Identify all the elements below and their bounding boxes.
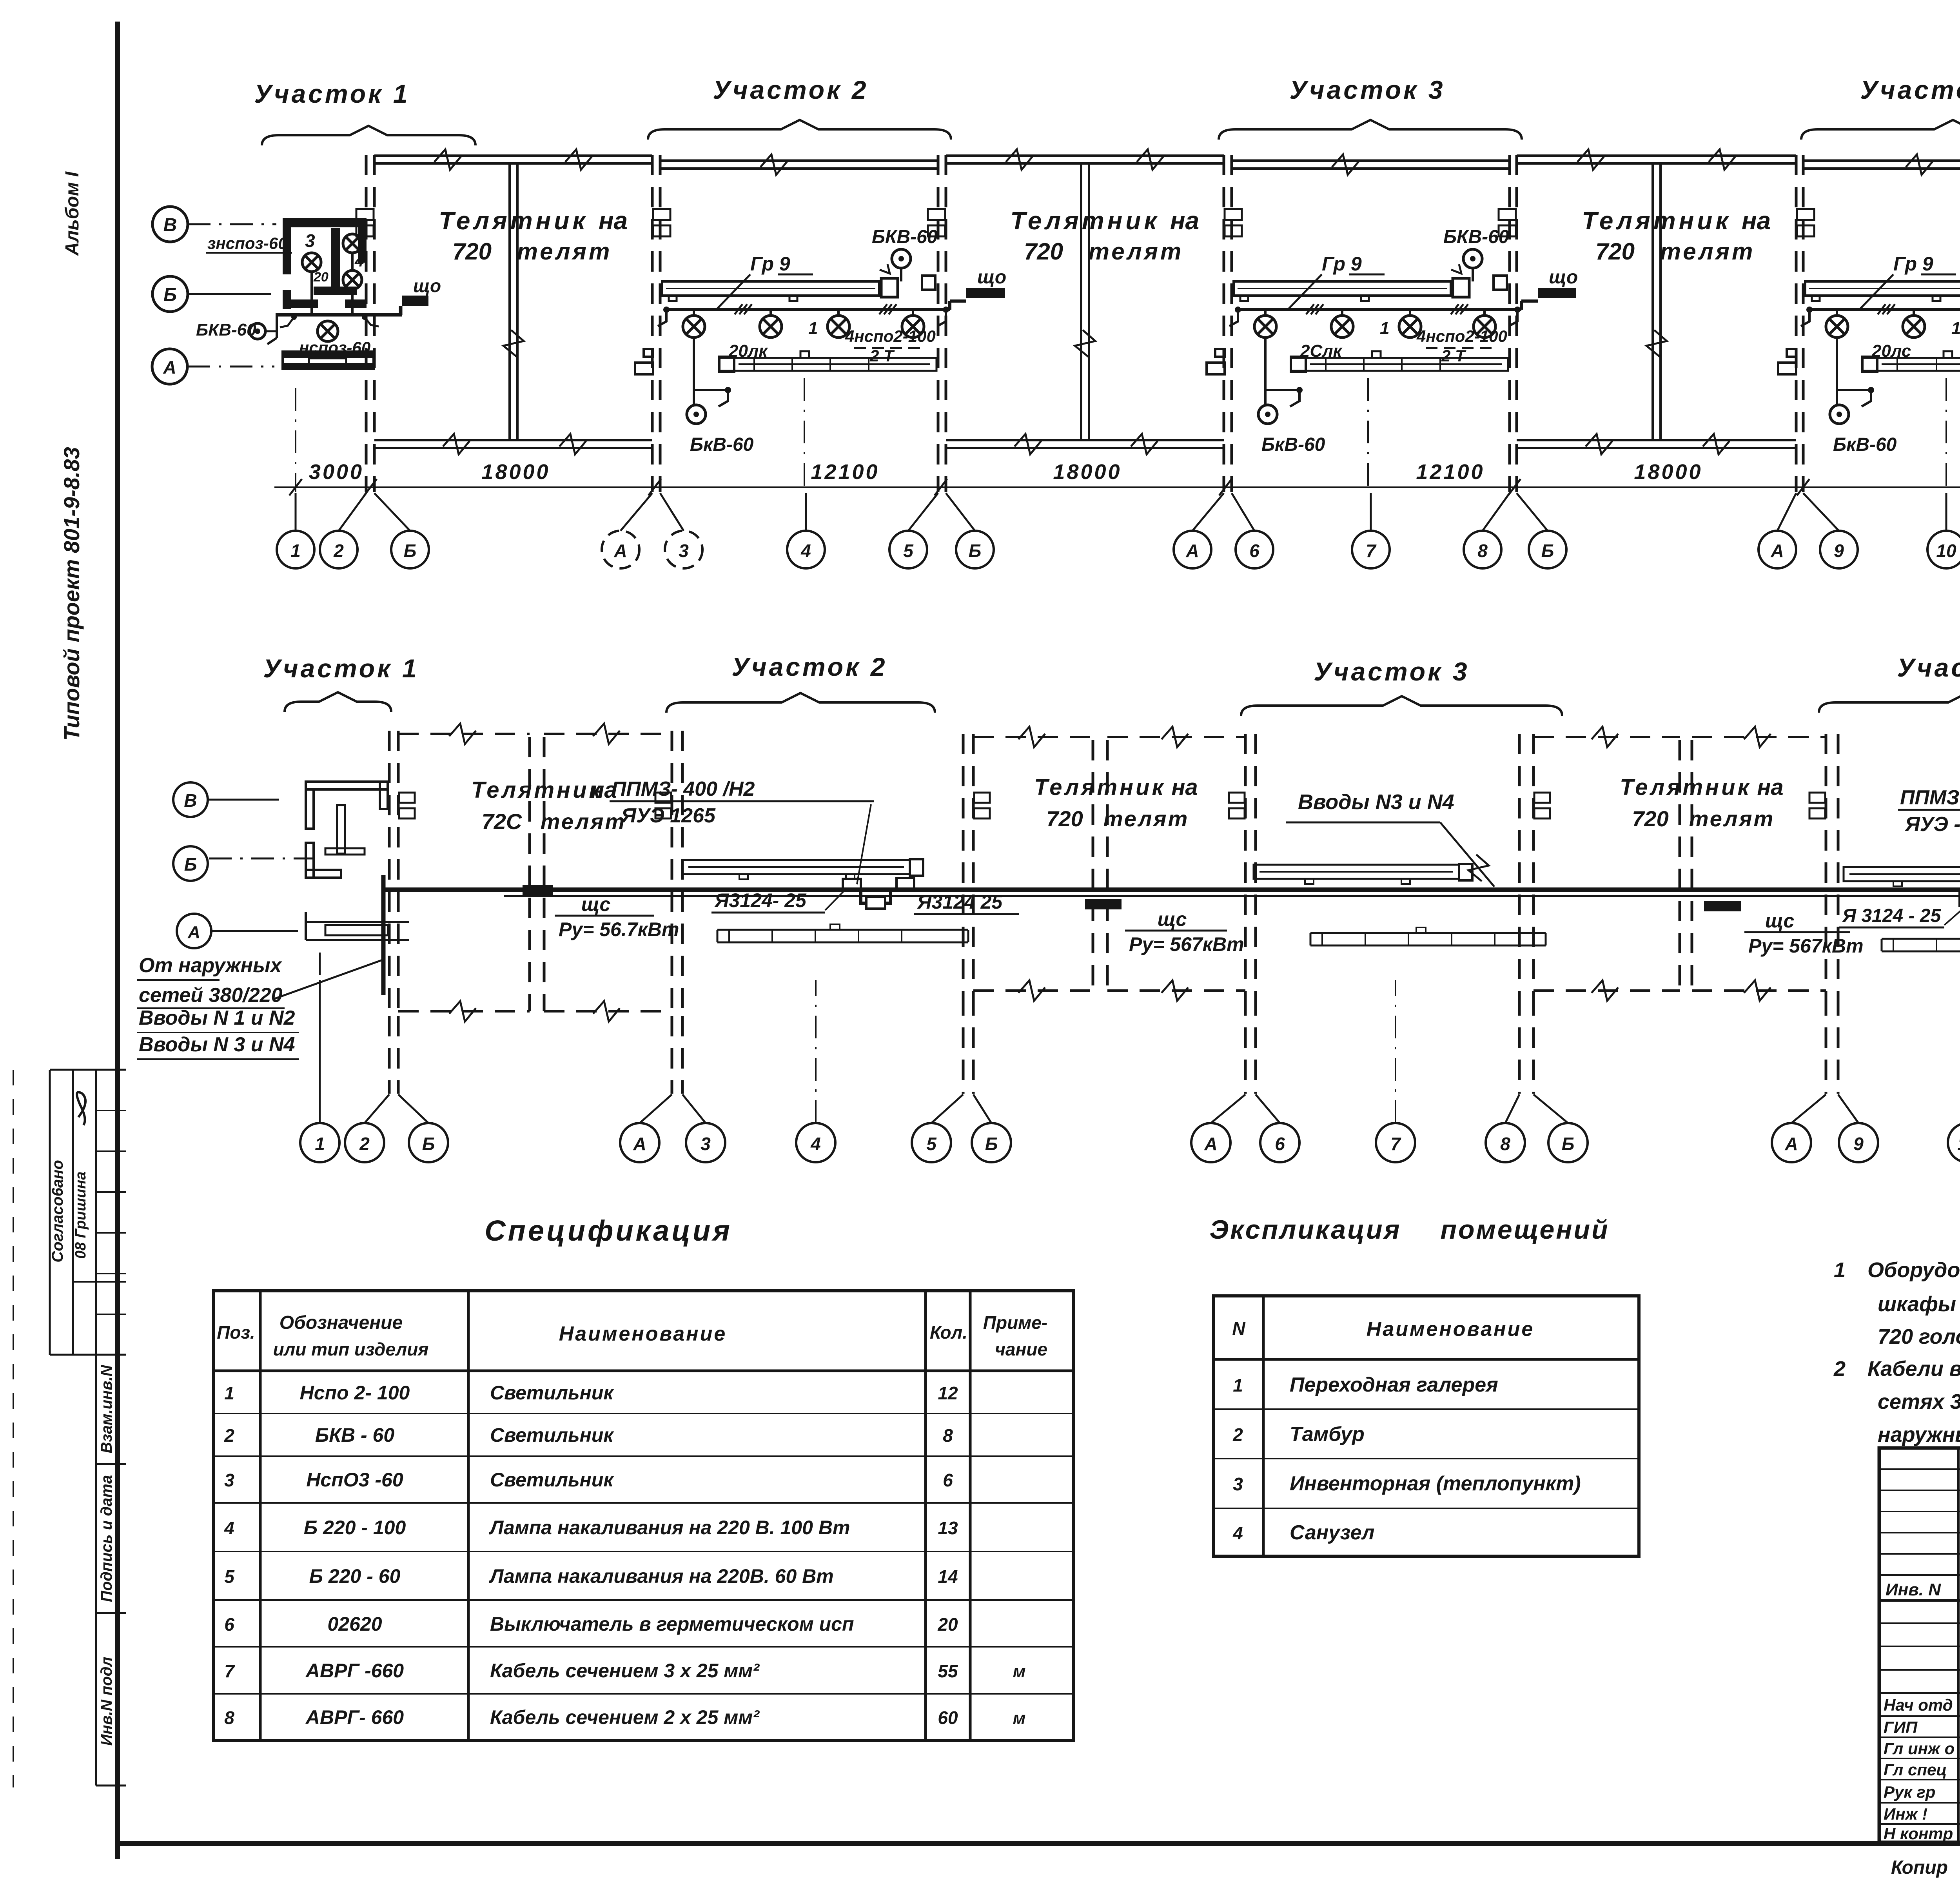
axis 1 dash-dot (row2) (319, 953, 321, 1123)
svg-text:Вводы N 1 и N2: Вводы N 1 и N2 (139, 1007, 295, 1029)
svg-text:на: на (1742, 207, 1771, 235)
svg-text:Ру= 567кВт: Ру= 567кВт (1129, 933, 1244, 955)
svg-text:Участок 1: Участок 1 (263, 654, 419, 683)
svg-text:1: 1 (1951, 319, 1960, 338)
row letter circle Б (152, 276, 188, 312)
spec table column lines (259, 1291, 262, 1740)
svg-text:Вводы N 3 и N4: Вводы N 3 и N4 (139, 1033, 295, 1056)
svg-text:Кол.: Кол. (930, 1322, 967, 1343)
building outline: Телятник Б3 (top row) bottom wall (1517, 439, 1796, 441)
svg-text:Выключатель в герметическом: Выключатель в герметическом исп (490, 1613, 854, 1635)
building Б3 bottom dashed wall (1534, 989, 1680, 992)
svg-text:Инв.N подл: Инв.N подл (98, 1657, 115, 1746)
service entrance vertical (heavy) (381, 875, 386, 995)
svg-text:Участок 1: Участок 1 (254, 79, 410, 108)
wall pilaster tabs (1499, 209, 1516, 220)
svg-text:Я3124 25: Я3124 25 (916, 891, 1003, 913)
svg-text:А: А (633, 1134, 646, 1154)
svg-text:телят: телят (517, 238, 612, 265)
svg-text:Инв. N: Инв. N (1886, 1580, 1941, 1599)
lamp БКВ-60 (bottom) (1830, 405, 1849, 424)
svg-text:Копир: Копир (1891, 1857, 1948, 1878)
svg-text:м: м (1013, 1662, 1026, 1681)
svg-text:N: N (1232, 1318, 1245, 1339)
svg-text:Альбом I: Альбом I (62, 171, 83, 256)
svg-text:сетях 380/220 в и уточня: сетях 380/220 в и уточняются при разрабо… (1878, 1390, 1960, 1414)
svg-text:18000: 18000 (1634, 460, 1702, 484)
junction boxes Я3124-25 cluster (Участок 2) (843, 879, 861, 890)
svg-text:БКВ-60: БКВ-60 (1443, 227, 1509, 247)
svg-text:Согласо6ано: Согласо6ано (49, 1160, 66, 1263)
svg-text:1: 1 (1233, 1375, 1243, 1395)
grid circle А @x=3089 (row 2) (1191, 1123, 1230, 1162)
svg-text:щс: щс (1158, 908, 1187, 930)
panel що (black box) (1538, 288, 1576, 298)
margin dashed edge line (13, 1070, 14, 1787)
lamp НСПО2-100 #4 (912, 310, 914, 316)
svg-text:Наименование: Наименование (559, 1323, 727, 1345)
lighting group wire (666, 308, 950, 311)
building Б3 (row 2) walls (1518, 734, 1521, 995)
lamp #2 (1913, 310, 1915, 316)
grid circle 8 @x=3782 (top row) (1464, 531, 1501, 568)
svg-text:Наименование: Наименование (1367, 1318, 1535, 1341)
legend column line (1262, 1296, 1265, 1556)
svg-text:2: 2 (224, 1425, 234, 1446)
svg-text:720: 720 (1024, 238, 1063, 265)
svg-text:Б: Б (969, 541, 982, 561)
svg-text:Б: Б (1562, 1134, 1575, 1154)
dimension ticks (289, 479, 302, 495)
open tab near right wall (922, 276, 935, 290)
svg-text:телят: телят (1660, 238, 1755, 265)
gallery floor band (1291, 358, 1508, 371)
svg-text:А: А (1204, 1134, 1217, 1154)
Инв.N row (1879, 1574, 1960, 1576)
sheet frame left border (115, 22, 120, 1859)
gallery shaft bar (Участок 4, row 2) (1844, 867, 1960, 881)
grid circle А @x=3042 (top row) (1174, 531, 1211, 568)
svg-text:60: 60 (938, 1707, 958, 1728)
grid circle 6 @x=3200 (top row) (1236, 531, 1273, 568)
corridor side tabs (635, 363, 653, 374)
svg-text:Н контр: Н контр (1884, 1824, 1953, 1843)
grid circle 6 @x=3265 (row 2) (1260, 1123, 1299, 1162)
svg-text:20: 20 (313, 270, 328, 285)
gallery floor bar (Участок 2, row 2) (717, 929, 968, 931)
grid circle А @x=1583 (top row) (602, 531, 639, 568)
grid circle 8 @x=3840 (row 2) (1486, 1123, 1525, 1162)
grid circle А @x=4570 (row 2) (1772, 1123, 1811, 1162)
А-row lower room (283, 350, 374, 358)
svg-text:на: на (590, 777, 617, 803)
svg-text:5: 5 (903, 541, 914, 561)
tambour lamps (302, 253, 321, 272)
signature row Гл инж о Омельченко (1879, 1737, 1960, 1738)
svg-text:БКВ-60: БКВ-60 (872, 227, 938, 247)
wire crossing hatch marks (1878, 304, 1895, 314)
svg-text:1: 1 (224, 1383, 234, 1403)
building Б3 top dashed wall (1534, 736, 1680, 738)
grid circle 4 @x=2056 (top row) (787, 531, 825, 568)
svg-text:12100: 12100 (1416, 460, 1485, 484)
svg-text:Тамбур: Тамбур (1290, 1423, 1365, 1446)
junction dots on wire (1235, 307, 1241, 313)
svg-text:13: 13 (938, 1518, 958, 1538)
wall tabs (974, 793, 990, 803)
wall pilaster tabs (356, 209, 374, 220)
svg-text:1: 1 (315, 1134, 325, 1154)
svg-text:14: 14 (938, 1566, 958, 1587)
legend table outer frame (1214, 1296, 1639, 1556)
svg-text:Рук гр: Рук гр (1884, 1783, 1935, 1801)
spec table header separator (214, 1370, 1073, 1372)
svg-text:сетей 380/220: сетей 380/220 (139, 984, 283, 1007)
wall tabs (1534, 793, 1550, 803)
lamp НСПО2-100 #4 (1483, 310, 1486, 316)
svg-text:В: В (184, 790, 197, 811)
lamp БКВ-60 (bottom) (687, 405, 706, 424)
svg-text:щс: щс (581, 893, 611, 915)
svg-text:Участок 2: Участок 2 (731, 652, 887, 681)
grid circle 1 @x=754 (top row) (277, 531, 314, 568)
drop wire to БКВ-60 lamp below (1836, 338, 1838, 404)
svg-text:телят: телят (541, 809, 626, 834)
grid circle 1 @x=816 (row 2) (300, 1123, 339, 1162)
svg-text:на: на (1170, 207, 1199, 235)
title block outer frame (1879, 1448, 1960, 1842)
title block left small rows (1879, 1468, 1960, 1470)
switch hooks (1229, 312, 1238, 326)
svg-text:щo: щo (413, 276, 441, 296)
svg-text:знспоз-60: знспоз-60 (207, 234, 287, 252)
svg-text:02620: 02620 (327, 1613, 382, 1635)
svg-text:3: 3 (224, 1470, 234, 1490)
spec table row lines (214, 1413, 1073, 1414)
svg-text:3: 3 (1233, 1474, 1243, 1494)
svg-text:Телятник: Телятник (1034, 775, 1166, 800)
margin approval stamp table (49, 1070, 51, 1355)
building outline: Телятник Б1 (top row) bottom wall (374, 439, 652, 441)
main wire to що (276, 313, 402, 317)
svg-text:на: на (599, 207, 628, 235)
gallery shaft bar (Участок 3, row 2) (1254, 865, 1459, 879)
row letter circle А (152, 349, 187, 384)
main gallery feeder line (heavy) (383, 887, 1960, 892)
svg-text:3000: 3000 (309, 460, 364, 484)
svg-text:Гл инж о: Гл инж о (1884, 1739, 1955, 1758)
signature row Инж ! Махонько (1879, 1802, 1960, 1804)
building Б2 bottom dashed wall (973, 989, 1093, 992)
svg-text:БкВ-60: БкВ-60 (1833, 434, 1897, 455)
signature row Гл спец Гриневская (1879, 1758, 1960, 1759)
building Б1 top dashed wall (398, 733, 530, 735)
svg-text:Участок 4: Участок 4 (1860, 75, 1960, 104)
grid circle Б @x=4000 (row 2) (1548, 1123, 1588, 1162)
margin boxes: Взам.инв.N / Подпись и дата / Инв.N подл (95, 1355, 97, 1785)
grid circle 4 @x=2081 (row 2) (796, 1123, 835, 1162)
grid circle Б @x=2487 (top row) (956, 531, 994, 568)
svg-text:БкВ-60: БкВ-60 (1261, 434, 1325, 455)
gallery floor bar (Участок 3, row 2) (1310, 932, 1546, 934)
svg-text:5: 5 (926, 1134, 937, 1154)
row letter circle А (row2) (177, 914, 211, 948)
svg-text:1: 1 (1834, 1258, 1846, 1282)
svg-text:ГИП: ГИП (1884, 1718, 1918, 1737)
grid circle 7 @x=3497 (top row) (1352, 531, 1390, 568)
lamp НСПО2-100 #1 (693, 310, 695, 316)
drop wire to БКВ-60 lamp below (693, 338, 695, 404)
svg-text:Б: Б (163, 285, 177, 305)
svg-text:Спецификация: Спецификация (485, 1214, 732, 1247)
gallery upper shaft bar (1234, 281, 1451, 296)
wire crossing hatch marks (735, 304, 752, 314)
svg-text:Лампа накаливания на 220 В.: Лампа накаливания на 220 В. 100 Вт (489, 1517, 850, 1539)
svg-text:9: 9 (1834, 541, 1844, 561)
building Б1 bottom dashed wall (398, 1010, 530, 1013)
signature row Н контр Москаленко (1879, 1823, 1960, 1825)
grid circle А @x=1632 (row 2) (620, 1123, 659, 1162)
building outline: Телятник Б2 (top row) bottom wall (946, 439, 1224, 441)
grid circle 7 @x=3560 (row 2) (1376, 1123, 1415, 1162)
svg-text:шкафы , учтены в проекте з: шкафы , учтены в проекте здания телятник… (1878, 1292, 1960, 1316)
single axes (top row) (295, 388, 296, 492)
dimension line (top row) (274, 486, 1960, 488)
svg-text:Ру= 56.7кВт: Ру= 56.7кВт (559, 918, 679, 940)
svg-text:телят: телят (1103, 806, 1189, 831)
svg-text:8: 8 (943, 1425, 953, 1446)
switch hooks (1801, 312, 1809, 326)
title block verticals (left part) (1957, 1448, 1960, 1842)
svg-text:Б 220 - 60: Б 220 - 60 (309, 1565, 401, 1587)
grid circle 3 @x=1800 (row 2) (686, 1123, 725, 1162)
gallery floor band (719, 358, 936, 371)
svg-text:12100: 12100 (811, 460, 879, 484)
building outline: Телятник Б1 (top row) top wall (374, 154, 652, 157)
svg-text:Инвенторная (теплопункт): Инвенторная (теплопункт) (1290, 1472, 1581, 1495)
svg-text:Б 220 - 100: Б 220 - 100 (304, 1517, 406, 1539)
svg-text:5: 5 (224, 1566, 235, 1587)
svg-text:БКВ - 60: БКВ - 60 (315, 1424, 394, 1446)
svg-text:08 Гришина: 08 Гришина (73, 1172, 89, 1259)
svg-text:наружных сетей: наружных сетей (1878, 1423, 1960, 1446)
panel щс #3 (black) (1704, 901, 1741, 911)
svg-text:2 Т: 2 Т (869, 347, 895, 365)
svg-text:В: В (163, 215, 177, 236)
svg-text:8: 8 (1477, 541, 1488, 561)
gallery shaft bar (Участок 2, row 2) (682, 860, 910, 874)
junction dots on wire (1806, 307, 1813, 313)
junction dots on wire (663, 307, 670, 313)
svg-text:щс: щс (1765, 910, 1795, 932)
wall tabs (399, 793, 415, 803)
grid circle Б @x=1093 (row 2) (409, 1123, 448, 1162)
svg-text:помещений: помещений (1440, 1215, 1609, 1245)
svg-text:А: А (613, 541, 627, 561)
svg-text:Б: Б (404, 541, 417, 561)
svg-text:4: 4 (800, 541, 811, 561)
svg-text:4: 4 (1232, 1523, 1243, 1543)
panel щс #1 (black) (523, 885, 553, 895)
svg-text:720: 720 (1046, 806, 1083, 831)
lamp НСПО2-100 #1 (1836, 310, 1838, 316)
svg-text:Типовой проект 801-9-8.83: Типовой проект 801-9-8.83 (59, 447, 84, 740)
building partition wall (1080, 163, 1082, 440)
drop wire to БКВ-60 lamp below (1264, 338, 1267, 404)
lighting group wire (1809, 308, 1960, 311)
gallery upper shaft bar (662, 281, 879, 296)
svg-text:Переходная галерея: Переходная галерея (1290, 1374, 1498, 1396)
svg-text:2: 2 (1232, 1424, 1243, 1445)
svg-text:55: 55 (938, 1661, 958, 1681)
corridor side tabs (1207, 363, 1225, 374)
gallery corridor top wall (660, 160, 938, 162)
svg-text:БкВ-60: БкВ-60 (690, 434, 754, 455)
svg-text:или тип изделия: или тип изделия (273, 1339, 429, 1359)
building outline: Телятник Б3 (top row) top wall (1517, 154, 1796, 157)
svg-text:Светильник: Светильник (490, 1469, 614, 1491)
svg-text:А: А (187, 923, 200, 942)
svg-text:3: 3 (701, 1134, 711, 1154)
svg-text:АВРГ -660: АВРГ -660 (305, 1660, 404, 1682)
tambour lower room (row 2) (306, 921, 409, 923)
svg-text:18000: 18000 (481, 460, 550, 484)
svg-text:Светильник: Светильник (490, 1382, 614, 1404)
svg-text:А: А (1770, 541, 1784, 561)
signature row Рук гр Москаленко (1879, 1779, 1960, 1780)
svg-text:2: 2 (333, 541, 344, 561)
gallery corridor top wall (1232, 160, 1510, 162)
svg-text:Нач отд: Нач отд (1884, 1696, 1953, 1714)
open tab near right wall (1494, 276, 1507, 290)
svg-text:Поз.: Поз. (217, 1322, 255, 1343)
svg-text:Кабель сечением 3 х 25: Кабель сечением 3 х 25 мм² (490, 1660, 760, 1682)
wire crossing hatch marks (1306, 304, 1323, 314)
svg-text:10: 10 (1957, 1134, 1960, 1154)
svg-text:4: 4 (810, 1134, 821, 1154)
svg-text:БКВ-60: БКВ-60 (196, 320, 256, 339)
svg-text:Гр 9: Гр 9 (1322, 253, 1362, 275)
svg-text:720: 720 (452, 238, 492, 265)
svg-text:4: 4 (224, 1518, 234, 1538)
svg-text:Инж !: Инж ! (1884, 1805, 1927, 1823)
grid circle Б @x=3948 (top row) (1529, 531, 1566, 568)
panel щс #2 (black) (1085, 899, 1122, 909)
lamp НСПО2-100 #1 (1264, 310, 1267, 316)
svg-text:3: 3 (679, 541, 689, 561)
svg-text:А: А (1185, 541, 1199, 561)
svg-text:Гр 9: Гр 9 (1893, 253, 1933, 275)
svg-text:Лампа накаливания на 220В.: Лампа накаливания на 220В. 60 Вт (489, 1565, 834, 1587)
svg-text:От наружных: От наружных (139, 954, 283, 977)
legend header separator (1214, 1358, 1639, 1361)
gallery corridor top wall (1803, 160, 1960, 162)
row letter circle В (row2) (173, 782, 208, 817)
grid circle 9 @x=4741 (row 2) (1839, 1123, 1878, 1162)
lamp #3 (1409, 310, 1411, 316)
svg-text:НспО3 -60: НспО3 -60 (306, 1469, 403, 1491)
svg-text:Взам.инв.N: Взам.инв.N (98, 1365, 115, 1453)
svg-text:Участок 3: Участок 3 (1289, 75, 1445, 104)
building Б2 top dashed wall (973, 736, 1093, 738)
corridor side tabs (1778, 363, 1796, 374)
building partition wall (508, 163, 511, 440)
gallery floor bar (Участок 4, row 2) (1882, 938, 1960, 940)
svg-text:Оборудование вводов и кабе: Оборудование вводов и кабели, питающие с… (1867, 1258, 1960, 1282)
lamp нспоз-60 below wire (318, 321, 338, 341)
svg-text:720 голов в возрасте от 2: 720 голов в возрасте от 20 дней до 4 ˣ м… (1878, 1325, 1960, 1348)
spec table outer frame (214, 1291, 1073, 1740)
tambour plan (row 2) (306, 782, 388, 789)
grid circle 10 @x=5019 (row 2) (1948, 1123, 1960, 1162)
svg-text:18000: 18000 (1053, 460, 1122, 484)
svg-text:Участок 2: Участок 2 (713, 75, 868, 104)
svg-text:20: 20 (937, 1614, 958, 1635)
leader from сетей to entrance (274, 960, 383, 999)
gallery floor band (1862, 358, 1960, 371)
svg-text:Вводы N3 и N4: Вводы N3 и N4 (1298, 790, 1454, 814)
svg-text:12: 12 (938, 1383, 958, 1403)
svg-text:Я3124- 25: Я3124- 25 (714, 889, 807, 911)
svg-text:Телятник: Телятник (1010, 207, 1160, 235)
svg-text:Подпись и дата: Подпись и дата (98, 1475, 115, 1602)
svg-text:А: А (163, 357, 176, 377)
gallery upper shaft bar (1805, 281, 1960, 296)
svg-text:6: 6 (1249, 541, 1259, 561)
svg-text:Приме-: Приме- (983, 1312, 1047, 1333)
svg-text:Телятник: Телятник (471, 777, 603, 803)
svg-text:телят: телят (1689, 806, 1775, 831)
svg-text:щo: щo (1549, 267, 1578, 288)
svg-text:Ру= 567кВт: Ру= 567кВт (1748, 935, 1864, 957)
grid circle 10 @x=4965 (top row) (1927, 531, 1960, 568)
svg-text:3: 3 (305, 230, 315, 251)
building Б1 (row 2) walls (388, 731, 391, 1016)
svg-text:Кабели вводов N 1 - N 4 учи: Кабели вводов N 1 - N 4 учитываются в на… (1867, 1357, 1960, 1381)
lamp #2 (1341, 310, 1343, 316)
svg-text:телят: телят (1089, 238, 1184, 265)
svg-text:4: 4 (354, 252, 364, 270)
grid circle 2 @x=864 (top row) (320, 531, 358, 568)
svg-text:на: на (1757, 775, 1783, 800)
building Б2 (row 2) walls (962, 734, 965, 995)
svg-text:АВРГ- 660: АВРГ- 660 (305, 1706, 404, 1728)
svg-text:6: 6 (1275, 1134, 1285, 1154)
svg-text:м: м (1013, 1709, 1026, 1728)
svg-text:чание: чание (995, 1339, 1047, 1359)
svg-text:Светильник: Светильник (490, 1424, 614, 1446)
svg-text:Участок 3: Участок 3 (1314, 657, 1469, 686)
svg-text:Экспликация: Экспликация (1209, 1215, 1401, 1245)
svg-text:Нспо 2- 100: Нспо 2- 100 (300, 1382, 410, 1404)
svg-text:Гл спец: Гл спец (1884, 1760, 1947, 1779)
grid circle 3 @x=1744 (top row) (665, 531, 702, 568)
lamp #3 (837, 310, 840, 316)
svg-text:щo: щo (977, 267, 1006, 288)
svg-text:7: 7 (1366, 541, 1377, 561)
switch hooks (658, 312, 666, 326)
svg-text:9: 9 (1853, 1134, 1864, 1154)
grid axis dashed wall lines (top row) (365, 155, 368, 492)
sheet frame bottom border (118, 1841, 1960, 1846)
grid circle Б @x=2529 (row 2) (972, 1123, 1011, 1162)
svg-text:ЯУЭ -1265: ЯУЭ -1265 (1904, 813, 1960, 836)
svg-text:Телятник: Телятник (1620, 775, 1751, 800)
panel що (black box) (402, 296, 428, 306)
svg-text:10: 10 (1936, 541, 1956, 561)
panel що (black box) (966, 288, 1005, 298)
svg-text:Б: Б (1541, 541, 1554, 561)
